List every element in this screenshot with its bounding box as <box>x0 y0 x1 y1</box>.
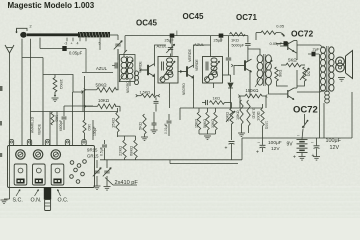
svg-text:AZUL: AZUL <box>194 42 205 47</box>
svg-text:150KΩ: 150KΩ <box>246 88 259 93</box>
svg-text:68KΩ: 68KΩ <box>129 146 134 156</box>
svg-text:25μF: 25μF <box>214 38 224 43</box>
svg-text:100μF: 100μF <box>326 138 342 144</box>
svg-text:+: + <box>293 155 296 161</box>
svg-text:0.05μF: 0.05μF <box>69 51 83 56</box>
svg-text:56KΩ: 56KΩ <box>203 119 207 128</box>
svg-text:2μF: 2μF <box>313 47 321 52</box>
svg-text:AZUL: AZUL <box>96 66 108 71</box>
svg-text:15KΩ: 15KΩ <box>59 79 64 89</box>
svg-text:OC45: OC45 <box>183 12 204 21</box>
svg-text:6800pF: 6800pF <box>59 120 63 131</box>
svg-text:5KΩ: 5KΩ <box>288 58 297 63</box>
svg-text:NEGRO: NEGRO <box>182 83 186 95</box>
svg-text:12V: 12V <box>330 145 340 151</box>
svg-text:5KΩ: 5KΩ <box>138 122 143 130</box>
svg-text:Magestic Modelo 1.003: Magestic Modelo 1.003 <box>8 1 95 10</box>
svg-text:1KΩ: 1KΩ <box>231 38 239 43</box>
svg-text:0.01μF: 0.01μF <box>164 123 168 134</box>
svg-text:+: + <box>71 42 73 46</box>
svg-text:NEGRO: NEGRO <box>126 81 130 93</box>
svg-text:10KΩ: 10KΩ <box>236 110 240 120</box>
svg-text:AZUL: AZUL <box>157 44 168 49</box>
svg-text:15KΩ: 15KΩ <box>111 118 116 128</box>
svg-text:2: 2 <box>30 25 32 29</box>
svg-text:VERDE: VERDE <box>195 59 199 71</box>
svg-text:100pF: 100pF <box>93 127 97 136</box>
svg-text:25μF: 25μF <box>165 38 175 43</box>
svg-text:1KΩ: 1KΩ <box>87 124 91 131</box>
svg-text:0.5μF: 0.5μF <box>100 147 104 156</box>
svg-text:O.N.: O.N. <box>31 198 42 204</box>
svg-text:100Ω: 100Ω <box>265 121 269 130</box>
svg-text:100Ω: 100Ω <box>256 111 261 121</box>
svg-text:15KΩ: 15KΩ <box>195 119 199 128</box>
svg-text:AMARILLO: AMARILLO <box>31 116 35 133</box>
svg-text:12V: 12V <box>271 146 280 152</box>
svg-text:+: + <box>256 150 259 156</box>
svg-text:1KΩ: 1KΩ <box>213 97 221 101</box>
svg-text:VERDE: VERDE <box>38 124 42 135</box>
svg-text:9V: 9V <box>287 142 294 148</box>
svg-text:0.05: 0.05 <box>276 23 285 28</box>
svg-text:S.C.: S.C. <box>13 198 23 204</box>
svg-text:33KΩ: 33KΩ <box>211 119 215 128</box>
svg-text:VERDE: VERDE <box>188 48 192 62</box>
svg-text:100μF: 100μF <box>268 140 282 146</box>
svg-text:22KΩ: 22KΩ <box>118 146 123 156</box>
svg-text:+: + <box>312 153 315 159</box>
svg-text:OC45: OC45 <box>136 19 157 28</box>
svg-text:+: + <box>225 146 228 152</box>
svg-text:OC72: OC72 <box>293 104 318 115</box>
svg-text:4: 4 <box>77 42 79 46</box>
svg-text:O.C.: O.C. <box>58 198 69 204</box>
svg-text:OC71: OC71 <box>236 13 257 22</box>
svg-text:1KΩ: 1KΩ <box>55 115 59 122</box>
svg-text:1.5KΩ: 1.5KΩ <box>140 90 151 94</box>
svg-text:10KΩ: 10KΩ <box>225 112 230 122</box>
svg-text:OC72: OC72 <box>291 28 313 38</box>
svg-text:5000pF: 5000pF <box>232 44 245 48</box>
svg-text:50KΩ: 50KΩ <box>96 83 108 88</box>
svg-text:GR15: GR15 <box>87 154 99 159</box>
svg-text:-3: -3 <box>64 42 67 46</box>
svg-text:9R15: 9R15 <box>87 148 98 153</box>
svg-text:10KΩ: 10KΩ <box>98 98 110 103</box>
